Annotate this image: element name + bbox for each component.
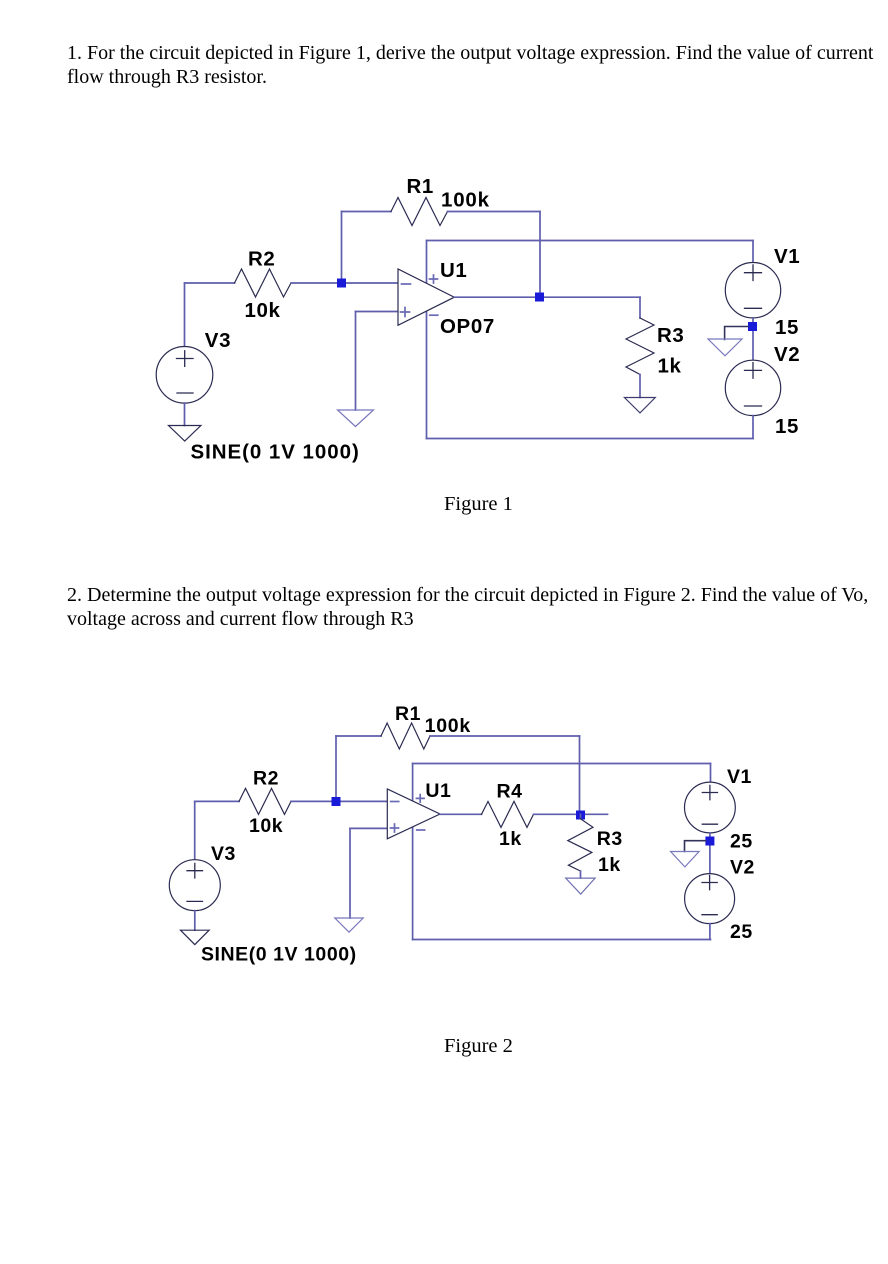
svg-text:U1: U1 bbox=[440, 259, 467, 282]
wire V3 to R2 (left vertical) bbox=[194, 801, 196, 859]
voltage source V1 circle bbox=[685, 782, 736, 833]
op-amp V- pin mark bbox=[417, 829, 425, 831]
wire R1 top-left horizontal bbox=[336, 735, 381, 737]
resistor R2 body bbox=[235, 269, 292, 297]
wire op-amp output bbox=[454, 296, 640, 298]
svg-text:15: 15 bbox=[775, 415, 799, 438]
svg-text:V2: V2 bbox=[730, 857, 755, 879]
svg-text:V2: V2 bbox=[774, 343, 800, 366]
wire node C to ground stub bbox=[725, 327, 748, 340]
op-amp non-inverting input mark bbox=[391, 824, 399, 832]
wire V3 to R2 (left vertical) bbox=[184, 283, 186, 347]
op-amp U1 triangle bbox=[387, 789, 440, 839]
wire R2 to op-amp inverting input bbox=[291, 800, 387, 802]
op-amp U1 triangle bbox=[398, 269, 454, 325]
wire supply box bottom bbox=[427, 438, 754, 440]
svg-text:V1: V1 bbox=[727, 766, 752, 788]
node D junction (inverting input) bbox=[332, 797, 341, 806]
wire V2 to box bottom bbox=[752, 416, 754, 439]
svg-text:10k: 10k bbox=[245, 299, 281, 322]
wire supply box bottom bbox=[413, 939, 711, 941]
wire R1 top-left horizontal bbox=[342, 211, 392, 213]
svg-text:V1: V1 bbox=[774, 245, 800, 268]
ground between V1 and V2 bbox=[708, 339, 742, 356]
resistor R2 body bbox=[239, 788, 291, 814]
svg-text:R1: R1 bbox=[395, 703, 421, 725]
svg-text:15: 15 bbox=[775, 316, 799, 339]
node F junction (between supplies) bbox=[705, 837, 714, 846]
wire R4 to node E and stub bbox=[534, 813, 608, 815]
ground at op-amp + input bbox=[335, 918, 363, 932]
svg-text:1k: 1k bbox=[598, 854, 621, 876]
svg-text:U1: U1 bbox=[425, 780, 451, 802]
node B junction (output) bbox=[535, 293, 544, 302]
op-amp V+ pin mark bbox=[417, 795, 425, 803]
wire R3 to ground bbox=[580, 871, 582, 878]
svg-text:R2: R2 bbox=[253, 768, 279, 790]
svg-text:OP07: OP07 bbox=[440, 315, 495, 338]
resistor R3 body bbox=[626, 318, 654, 375]
svg-text:1k: 1k bbox=[499, 828, 522, 850]
svg-text:V3: V3 bbox=[211, 843, 236, 865]
wire V- power pin vertical bbox=[426, 311, 428, 439]
ground below R3 bbox=[566, 878, 595, 894]
voltage source V1 circle bbox=[725, 263, 780, 318]
wire R2 left horizontal bbox=[185, 282, 235, 284]
voltage source V2 circle bbox=[685, 874, 735, 924]
wire V3 to ground bbox=[194, 911, 196, 931]
ground between V1 and V2 bbox=[671, 852, 700, 867]
V3 plus mark bbox=[177, 351, 194, 367]
svg-text:SINE(0 1V 1000): SINE(0 1V 1000) bbox=[191, 441, 360, 464]
node A junction (inverting input) bbox=[337, 279, 346, 288]
svg-text:25: 25 bbox=[730, 921, 753, 943]
op-amp non-inverting input mark bbox=[401, 308, 410, 317]
wire op-amp output to R4 bbox=[440, 813, 482, 815]
ground at op-amp + input bbox=[338, 410, 374, 427]
svg-text:R2: R2 bbox=[248, 248, 275, 271]
wire V- power pin vertical bbox=[412, 827, 414, 940]
resistor R4 body bbox=[482, 801, 534, 827]
V3 plus mark bbox=[187, 863, 203, 878]
voltage source V3 circle bbox=[169, 860, 220, 911]
node C junction (between supplies) bbox=[748, 322, 757, 331]
svg-text:R4: R4 bbox=[497, 781, 523, 803]
V2 minus mark bbox=[702, 914, 717, 916]
wire V+ power pin vertical bbox=[412, 764, 414, 802]
wire V1 to V2 bbox=[752, 318, 754, 360]
op-amp V- pin mark bbox=[430, 314, 438, 316]
ground below V3 bbox=[169, 426, 201, 442]
wire V2 to box bottom bbox=[709, 924, 711, 940]
wire node A up to R1 bbox=[341, 212, 343, 284]
wire R1 right vertical down to node E bbox=[579, 736, 581, 815]
wire non-inverting input vertical to ground bbox=[355, 312, 357, 411]
wire node F to ground stub bbox=[685, 841, 706, 852]
svg-text:10k: 10k bbox=[249, 815, 283, 837]
V3 minus mark bbox=[187, 900, 203, 902]
wire V+ power pin vertical bbox=[426, 241, 428, 284]
wire node D up to R1 bbox=[335, 736, 337, 801]
svg-text:V3: V3 bbox=[205, 329, 231, 352]
svg-text:R1: R1 bbox=[407, 175, 434, 198]
svg-text:25: 25 bbox=[730, 831, 753, 853]
V2 minus mark bbox=[745, 405, 762, 407]
wire node E down to R3 bbox=[580, 814, 582, 818]
op-amp inverting input mark bbox=[402, 283, 411, 285]
wire non-inverting input horizontal bbox=[350, 827, 387, 829]
wire V1 to V2 bbox=[709, 833, 711, 874]
V2 plus mark bbox=[745, 363, 762, 379]
V3 minus mark bbox=[177, 392, 193, 394]
svg-text:R3: R3 bbox=[597, 828, 623, 850]
V1 minus mark bbox=[702, 823, 717, 825]
node E junction (R4/R3) bbox=[576, 811, 585, 820]
voltage source V3 circle bbox=[156, 347, 213, 404]
question 1 text bbox=[67, 41, 873, 90]
ground below R3 bbox=[624, 398, 655, 413]
question 2 text bbox=[67, 583, 868, 632]
op-amp inverting input mark bbox=[391, 801, 399, 803]
svg-text:SINE(0 1V 1000): SINE(0 1V 1000) bbox=[201, 944, 357, 966]
wire R3 to ground bbox=[639, 375, 641, 398]
op-amp V+ pin mark bbox=[430, 275, 438, 283]
caption Figure 2 bbox=[444, 1036, 513, 1056]
V1 minus mark bbox=[745, 307, 762, 309]
V1 plus mark bbox=[745, 265, 762, 281]
V2 plus mark bbox=[702, 875, 717, 889]
svg-text:1k: 1k bbox=[658, 354, 682, 377]
resistor R1 body bbox=[391, 198, 448, 226]
caption Figure 1 bbox=[444, 494, 513, 514]
svg-text:R3: R3 bbox=[657, 324, 684, 347]
wire non-inverting input horizontal bbox=[356, 311, 399, 313]
V1 plus mark bbox=[702, 785, 717, 799]
wire R1 top-right horizontal bbox=[430, 735, 580, 737]
wire R2 left horizontal bbox=[195, 800, 239, 802]
ground below V3 bbox=[181, 930, 210, 944]
voltage source V2 circle bbox=[725, 360, 780, 415]
wire box to V1 top bbox=[752, 241, 754, 263]
resistor R1 body bbox=[381, 723, 430, 749]
resistor R3 body bbox=[568, 819, 593, 871]
wire R1 top-right horizontal bbox=[448, 211, 541, 213]
wire V3 to ground bbox=[184, 403, 186, 425]
wire output down to R3 bbox=[639, 297, 641, 318]
wire non-inverting input vertical to ground bbox=[349, 828, 351, 918]
wire box to V1 top bbox=[710, 764, 712, 783]
wire R1 right vertical down to output node bbox=[539, 212, 541, 298]
svg-text:100k: 100k bbox=[441, 188, 490, 211]
svg-text:100k: 100k bbox=[425, 715, 471, 737]
wire supply box top bbox=[427, 240, 754, 242]
wire supply box top bbox=[413, 763, 711, 765]
wire R2 to op-amp inverting input bbox=[291, 282, 398, 284]
